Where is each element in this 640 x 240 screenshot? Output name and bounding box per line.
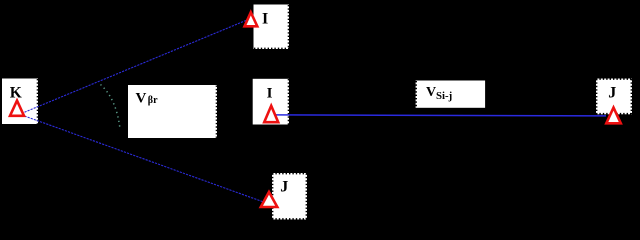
node J (right) label box xyxy=(596,79,632,115)
station marker J right (triangle) xyxy=(606,108,621,124)
node J (bottom) label box xyxy=(272,173,307,220)
wire I to J (horizontal) xyxy=(276,115,606,116)
label box V_Si-j xyxy=(416,81,486,108)
svg-text:βr: βr xyxy=(148,95,158,106)
station marker J bottom (triangle) xyxy=(261,192,278,207)
svg-text:I: I xyxy=(267,86,273,102)
svg-text:J: J xyxy=(608,85,616,102)
station marker I top (triangle) xyxy=(245,12,258,26)
station marker K (triangle) xyxy=(10,101,24,116)
wire K to J (bottom) xyxy=(25,116,264,202)
svg-text:V: V xyxy=(136,91,147,107)
label box V_beta-r xyxy=(128,85,217,138)
node K label box xyxy=(2,79,38,125)
station marker I middle (triangle) xyxy=(264,106,278,122)
svg-text:Si-j: Si-j xyxy=(436,90,452,102)
node I (middle) label box xyxy=(253,79,289,125)
angle arc Beta-r (dotted) xyxy=(101,85,121,130)
svg-text:J: J xyxy=(280,179,288,196)
wire K to I (top) xyxy=(25,20,248,112)
node I (top) label box xyxy=(254,5,290,50)
svg-text:K: K xyxy=(10,85,22,102)
svg-text:I: I xyxy=(262,11,268,28)
svg-text:V: V xyxy=(426,85,436,100)
